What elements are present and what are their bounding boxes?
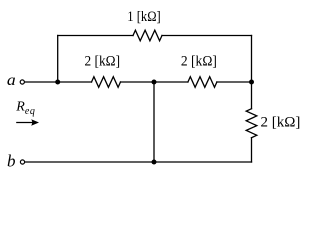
node C junction dot: [249, 80, 254, 85]
resistor R4 2 [kOhm] (right vertical): [246, 109, 257, 138]
node B junction dot: [152, 80, 157, 85]
svg-text:2 [kΩ]: 2 [kΩ]: [181, 53, 217, 69]
svg-text:a: a: [7, 72, 16, 89]
wire R3 to node C: [217, 81, 252, 83]
svg-text:2 [kΩ]: 2 [kΩ]: [85, 53, 121, 69]
svg-text:1 [kΩ]: 1 [kΩ]: [127, 9, 161, 25]
svg-text:Req: Req: [15, 99, 35, 117]
node A junction dot: [55, 80, 60, 85]
wire right vertical upper (top rail to node C): [251, 36, 253, 83]
node D junction dot (bottom of node B wire): [152, 160, 157, 165]
svg-text:b: b: [7, 151, 16, 170]
wire R2 to node B: [121, 81, 155, 83]
wire node B down to bottom rail: [153, 82, 155, 162]
wire node C down to R4: [251, 82, 253, 109]
wire node B to R3: [154, 81, 188, 83]
wire top rail right segment: [162, 35, 252, 37]
wire bottom rail: [25, 161, 252, 163]
terminal b (open circle): [20, 160, 24, 164]
wire node A to R2: [58, 81, 92, 83]
wire a to node A: [25, 81, 58, 83]
resistor R1 1 [kOhm] (top): [133, 30, 162, 41]
svg-text:2 [kΩ]: 2 [kΩ]: [261, 114, 301, 130]
terminal a (open circle): [20, 80, 24, 84]
wire top rail left segment: [58, 35, 133, 37]
resistor R3 2 [kOhm] (middle-right): [188, 77, 217, 88]
wire R4 to bottom rail corner: [251, 138, 253, 162]
arrow R_eq direction: [16, 119, 39, 125]
resistor R2 2 [kOhm] (middle-left): [92, 77, 121, 88]
wire left vertical (node between a-node and top rail): [57, 36, 59, 83]
